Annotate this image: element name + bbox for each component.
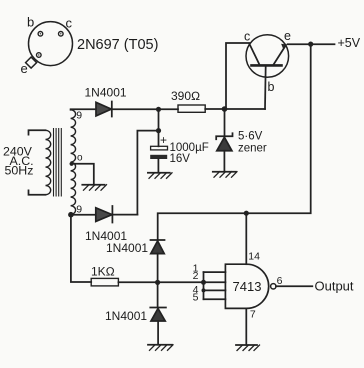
svg-text:9: 9: [76, 204, 82, 216]
svg-text:2N697 (T05): 2N697 (T05): [77, 37, 158, 53]
svg-text:2: 2: [193, 270, 199, 282]
svg-text:1N4001: 1N4001: [85, 86, 127, 100]
svg-text:50Hz: 50Hz: [5, 163, 34, 177]
svg-text:14: 14: [248, 251, 260, 263]
svg-text:390Ω: 390Ω: [171, 89, 200, 103]
svg-text:5·6V: 5·6V: [238, 130, 263, 142]
svg-text:5: 5: [193, 292, 199, 304]
svg-text:o: o: [77, 152, 83, 163]
svg-text:c: c: [66, 16, 73, 31]
svg-text:1N4001: 1N4001: [106, 241, 148, 255]
svg-text:zener: zener: [238, 143, 267, 155]
svg-text:e: e: [21, 61, 28, 76]
svg-text:+: +: [160, 133, 167, 147]
svg-text:7413: 7413: [233, 279, 262, 294]
svg-text:16V: 16V: [170, 153, 191, 165]
svg-text:7: 7: [250, 308, 256, 320]
svg-text:1N4001: 1N4001: [105, 309, 147, 323]
svg-text:c: c: [244, 30, 250, 44]
svg-text:Output: Output: [315, 279, 354, 294]
svg-text:1000µF: 1000µF: [170, 142, 209, 154]
svg-text:e: e: [284, 29, 291, 43]
svg-text:9: 9: [76, 110, 82, 122]
svg-text:1KΩ: 1KΩ: [91, 265, 115, 279]
svg-text:b: b: [268, 80, 275, 94]
svg-text:+5V: +5V: [338, 36, 361, 50]
svg-text:6: 6: [277, 275, 283, 287]
svg-text:b: b: [27, 15, 34, 30]
